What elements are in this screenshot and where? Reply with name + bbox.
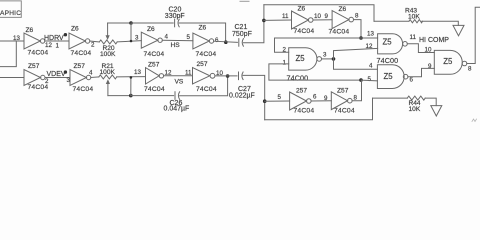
junction dot on bottom main wire — [130, 76, 133, 79]
NAND gate Z5-B (74C00, 13,12 -> 11) — [378, 34, 408, 54]
svg-text:74C04: 74C04 — [329, 28, 350, 35]
svg-text:APHIC: APHIC — [0, 10, 21, 17]
svg-text:0.022µF: 0.022µF — [229, 93, 255, 100]
wire: branch to Z6-E input — [264, 19, 292, 21]
NAND gate Z5-D (74C00, 10,9 -> 8) — [434, 50, 467, 74]
junction dot at C20 return — [224, 40, 228, 44]
wire: Z57-E out to Z57-F in — [311, 100, 331, 102]
svg-text:Z5: Z5 — [384, 72, 394, 81]
svg-text:74C04: 74C04 — [28, 50, 49, 57]
svg-text:VDEV: VDEV — [47, 71, 66, 78]
inverter Z57-C (74C04, 13->12) — [146, 68, 164, 84]
svg-text:12: 12 — [45, 42, 52, 49]
svg-text:330pF: 330pF — [165, 13, 185, 20]
svg-text:10K: 10K — [408, 13, 420, 20]
wire: C20 right to elbow down to Z6-D output node — [179, 23, 225, 42]
svg-text:5: 5 — [368, 76, 372, 83]
svg-text:5: 5 — [187, 34, 191, 41]
wire: C26 right, up to main wire dot — [180, 76, 228, 96]
connection marker after VDEV — [64, 70, 67, 73]
svg-text:9: 9 — [324, 95, 328, 102]
capacitor C26 — [175, 92, 180, 100]
wire: NAND1 pin1 from bottom chain — [269, 64, 361, 80]
svg-text:Z57: Z57 — [28, 63, 40, 70]
svg-text:74C04: 74C04 — [71, 50, 92, 57]
bottom rail to R44 — [265, 98, 373, 120]
wire: rail from dot to C20 — [131, 22, 173, 24]
wire: branch down to main wire — [130, 23, 132, 41]
svg-text:74C04: 74C04 — [294, 28, 315, 35]
resistor R20 (trimmer, in series) — [99, 40, 117, 44]
svg-text:13: 13 — [13, 35, 20, 42]
junction dot NAND2 pin13 node — [359, 36, 363, 40]
svg-text:74C04: 74C04 — [144, 51, 165, 58]
NAND gate Z5-A (74C00, 1,2 -> 3) — [289, 48, 322, 70]
inverter Z6-C (74C04, 3->4) — [141, 32, 162, 48]
wire: VS net Z57-C out to Z57-D in — [164, 75, 193, 77]
svg-text:VS: VS — [175, 78, 184, 85]
svg-text:HS: HS — [171, 42, 181, 49]
ground triangle for R43 — [453, 25, 464, 35]
junction dot inverter Z6-E input branch — [262, 19, 266, 23]
wire: wiper rail to C26 — [108, 95, 131, 97]
wire: branch up to NAND2 pin 12 — [334, 48, 378, 59]
junction dot rail/branch — [129, 21, 133, 25]
inverter Z57-E (74C04, 5->6) — [290, 92, 312, 110]
svg-text:10: 10 — [425, 47, 432, 54]
wire: NAND4 out up to NAND3 pin 9 — [408, 68, 434, 76]
inverter Z6-A (74C04, 13->12) — [24, 33, 45, 49]
svg-text:6: 6 — [215, 37, 219, 44]
svg-text:Z5: Z5 — [296, 54, 306, 63]
svg-text:12: 12 — [366, 43, 373, 50]
wire: HS net Z6-C out to Z6-D in — [162, 39, 193, 42]
svg-text:11: 11 — [410, 34, 417, 41]
svg-text:Z6: Z6 — [71, 26, 79, 33]
svg-text:C21: C21 — [235, 24, 248, 31]
junction dot rail/branch bottom — [129, 94, 133, 98]
resistor R21 (trimmer, in series) — [99, 75, 117, 79]
svg-text:Z6: Z6 — [298, 6, 306, 13]
svg-text:74C00: 74C00 — [377, 56, 399, 65]
svg-text:2: 2 — [45, 78, 49, 85]
wire: NAND2 out down to NAND3 pin 10 — [407, 44, 434, 53]
svg-text:74C04: 74C04 — [73, 86, 94, 93]
svg-text:11: 11 — [185, 70, 192, 77]
junction dot at C26 return — [226, 74, 230, 78]
svg-text:1: 1 — [56, 42, 60, 49]
wire: node left and down to NAND1 pin 2 — [275, 38, 362, 52]
svg-text:74C04: 74C04 — [196, 86, 217, 93]
R21 wiper arrow — [106, 79, 110, 95]
svg-text:11: 11 — [282, 13, 289, 20]
svg-text:13: 13 — [134, 69, 141, 76]
wire: bottom row left input — [0, 77, 24, 79]
wire: branch down exiting left edge — [0, 41, 16, 67]
wire: NAND3 out up to top right exit — [467, 7, 480, 63]
inverter Z6-B (74C04, 1->2) — [69, 33, 90, 49]
svg-text:4: 4 — [369, 63, 373, 70]
svg-text:257: 257 — [296, 87, 307, 94]
svg-text:HI COMP: HI COMP — [419, 37, 449, 44]
svg-text:9: 9 — [428, 63, 432, 70]
wire: branch to Z57-E input — [265, 100, 290, 102]
R20 wiper arrow — [106, 23, 110, 40]
svg-text:Z57: Z57 — [337, 88, 349, 95]
svg-text:HDRV: HDRV — [44, 35, 64, 42]
svg-text:74C04: 74C04 — [196, 51, 217, 58]
wire: VDEV net Z57-A out to Z57-B in — [45, 77, 70, 79]
junction dot Z57-E input branch — [263, 99, 267, 103]
svg-text:13: 13 — [367, 31, 374, 38]
svg-text:74C04: 74C04 — [144, 86, 165, 93]
GRAPHIC box (top-left, cut off) — [0, 1, 21, 18]
wire: Z57-D out to C27 — [215, 75, 237, 77]
wire: Z57-F out up to NAND4 pin5 node — [352, 80, 361, 101]
inverter Z6-D (74C04, 5->6) — [193, 33, 214, 49]
inverter Z6-E (74C04, 11->10) — [292, 11, 314, 29]
junction dot NAND1 output — [332, 57, 336, 61]
svg-text:Z5: Z5 — [383, 37, 393, 46]
svg-text:10K: 10K — [409, 106, 421, 113]
svg-text:1: 1 — [283, 59, 287, 66]
wire: Z57-B out to R21 — [91, 76, 99, 79]
inverter Z6-F (74C04, 9->8) — [332, 11, 353, 29]
svg-text:0.047µF: 0.047µF — [164, 106, 190, 113]
svg-text:750pF: 750pF — [232, 31, 252, 38]
svg-text:8: 8 — [468, 66, 472, 73]
svg-text:3: 3 — [135, 35, 139, 42]
svg-text:100K: 100K — [100, 69, 116, 76]
NAND gate Z5-C (74C00, 4,5 -> 6) — [377, 65, 408, 89]
wire: Z6-F out down to NAND node — [354, 20, 362, 38]
wire: NAND1 out to branch vertical — [322, 58, 334, 60]
svg-text:74C04: 74C04 — [28, 84, 49, 91]
wire: HDRV net Z6-A out to Z6-B in — [45, 40, 69, 42]
svg-text:Z6: Z6 — [26, 27, 34, 34]
junction dot NAND4 pin5 node — [359, 78, 363, 82]
inverter Z57-B (74C04, 3->4) — [70, 70, 91, 86]
svg-text:Z6: Z6 — [147, 26, 155, 33]
junction dot on main wire — [130, 40, 133, 43]
svg-text:74C04: 74C04 — [334, 107, 355, 114]
scan artifact dash top middle — [240, 0, 249, 2]
top rail to R43 — [264, 5, 374, 22]
svg-text:Z5: Z5 — [443, 57, 453, 66]
svg-text:8: 8 — [355, 13, 359, 20]
resistor R43 — [374, 20, 458, 26]
wire: Z6-E out to Z6-F in — [313, 19, 332, 21]
svg-text:10: 10 — [314, 13, 321, 20]
svg-text:Z57: Z57 — [148, 62, 160, 69]
svg-text:257: 257 — [197, 61, 208, 68]
wire: Z6-D out to C21 — [214, 41, 238, 42]
ground triangle for R44 — [431, 106, 442, 116]
capacitor C21 — [239, 39, 244, 47]
faint mark bottom right — [472, 119, 477, 122]
svg-text:9: 9 — [325, 13, 329, 20]
wire to R44 — [373, 97, 408, 99]
wire: C21 right, up to top rail — [243, 5, 264, 43]
wire: branch up to bottom main wire — [130, 77, 132, 95]
wire: Z6-B out to R20 — [90, 40, 100, 43]
svg-text:3: 3 — [323, 52, 327, 59]
svg-text:74C04: 74C04 — [294, 107, 315, 114]
svg-text:2: 2 — [283, 47, 287, 54]
wire: node to NAND2 pin 13 — [361, 37, 378, 39]
capacitor C27 — [239, 72, 244, 80]
svg-text:4: 4 — [89, 69, 93, 76]
inverter Z57-F (74C04, 9->8) — [331, 92, 352, 110]
connection marker after HDRV — [64, 33, 67, 36]
svg-text:Z6: Z6 — [339, 6, 347, 13]
wire: C27 right, down to bottom rail — [243, 75, 265, 119]
svg-text:4: 4 — [165, 33, 169, 40]
inverter Z57-A (74C04, 1->2) — [24, 70, 45, 86]
wire: node to NAND4 pin 5 — [361, 79, 377, 82]
wire: R21 right to Z57-C input — [117, 76, 146, 78]
svg-text:6: 6 — [410, 77, 414, 84]
svg-text:6: 6 — [313, 93, 317, 100]
svg-text:74C00: 74C00 — [287, 73, 309, 82]
svg-text:5: 5 — [278, 94, 282, 101]
wire: left input to inverter Z6-A (HDRV chain) — [0, 40, 24, 42]
svg-text:2: 2 — [91, 41, 95, 48]
wire: wiper rail to C20 — [108, 22, 131, 24]
wire: branch down to NAND4 pin 4 — [334, 59, 378, 69]
resistor R44 — [407, 96, 436, 106]
wire: rail from dot to C26 — [131, 95, 174, 97]
svg-text:Z6: Z6 — [199, 24, 207, 31]
capacitor C20 — [175, 19, 180, 27]
svg-text:Z57: Z57 — [74, 63, 86, 70]
svg-text:100K: 100K — [100, 51, 116, 58]
wire: R20 right to inverter Z6-C input — [117, 41, 141, 42]
inverter Z57-D (74C04, 11->10) — [193, 68, 215, 84]
